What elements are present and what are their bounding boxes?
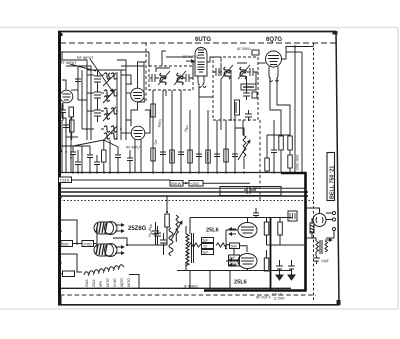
left border speck 1 [58, 60, 62, 62]
tube V1 RF amp envelope [60, 90, 73, 103]
link dot [185, 182, 187, 184]
corner blotch top right [333, 31, 338, 35]
wire B+ top rail [286, 51, 302, 53]
bypass capacitor C1 [60, 103, 66, 121]
coil L4 slug arrow [103, 126, 117, 141]
T4 leads [308, 238, 316, 256]
wire antenna vertical a [61, 52, 63, 60]
page scan edge right [397, 28, 399, 310]
node dot top right [294, 45, 296, 47]
boxed label value top right of T2 [252, 50, 259, 55]
svg-text:Ω 1500: Ω 1500 [274, 297, 285, 301]
heater string choke L5 [84, 265, 124, 276]
wire mains loop lower [60, 254, 82, 272]
filter cap C19 [160, 233, 167, 255]
wire antenna bus h1 [62, 60, 87, 70]
schematic outer border left [58, 31, 61, 306]
electrolytic C23 [288, 260, 295, 272]
svg-text:50KW: 50KW [171, 182, 182, 186]
comb wire w8 [216, 120, 218, 172]
wire stage mid vertical [225, 230, 227, 249]
speaker inner marks [316, 217, 323, 223]
wire osc grid link [121, 75, 131, 84]
T4 secondary [325, 241, 328, 252]
capacitor C8 shunt [127, 150, 133, 172]
tuning assembly frame [86, 70, 88, 140]
avc resistor R3 [252, 92, 257, 98]
node dot mix [130, 83, 132, 85]
T2 primary capacitor [213, 68, 222, 76]
T1 primary capacitor [149, 74, 159, 82]
wire to rectifiers [94, 243, 98, 245]
wire speaker circuit [306, 237, 316, 239]
svg-text:.1μF: .1μF [153, 139, 159, 146]
svg-text:5μF: 5μF [203, 239, 209, 243]
wire h link left mid [62, 145, 90, 147]
speaker top lead [306, 208, 320, 214]
resistor R6 boxed [170, 150, 175, 163]
comb wire w2 [162, 90, 164, 172]
antenna coil L1 [104, 73, 117, 79]
grid capacitor C25 [75, 74, 81, 87]
left border speck 7 [58, 262, 61, 264]
resistor R8 boxed [206, 150, 211, 163]
choke winding L6 [169, 228, 173, 256]
R8 label [207, 152, 209, 161]
corner blotch bottom left [58, 296, 62, 305]
wire top right to border [295, 46, 314, 48]
tube V5 base pins [269, 67, 279, 82]
page scan edge top [0, 27, 398, 29]
diode load label squiggle [243, 86, 254, 88]
wire between boxes [73, 243, 83, 245]
R14 tail [166, 227, 168, 245]
wire left drop g [109, 140, 111, 172]
T3 leads [185, 226, 187, 270]
rectifier V6 25Z6G body [94, 222, 117, 235]
bypass capacitor C16 [232, 154, 238, 157]
node dots tuning [86, 92, 122, 130]
tuning assembly right rail [120, 70, 122, 140]
T2 primary arrow [221, 65, 233, 79]
node dot IF2 [230, 119, 232, 121]
tube V2 converter envelope [131, 88, 145, 102]
wire to converter tube [126, 83, 131, 85]
wire filter link [158, 244, 168, 246]
wire osc feedback [145, 110, 150, 133]
svg-text:AF 50KΩ: AF 50KΩ [237, 47, 251, 51]
field coil hatched [310, 223, 314, 233]
V9 heater arrow [229, 259, 236, 261]
svg-text:1MEG: 1MEG [157, 118, 163, 128]
wire h mid right2 [273, 120, 275, 144]
R11 wire [280, 120, 282, 173]
plate resistor R12 [288, 136, 293, 150]
wire left drop f [81, 146, 83, 172]
T2 secondary capacitor [247, 68, 258, 76]
P1 top lead [235, 128, 244, 135]
ground symbol G2 [288, 272, 295, 280]
wire V4 pin link [199, 87, 213, 97]
terminal wire 2 [326, 219, 332, 221]
wire converter h link2 [126, 120, 131, 126]
output stage rail top [190, 217, 292, 219]
V6 inner ellipse [105, 222, 114, 234]
wire rect output down right [127, 244, 158, 246]
rf coil L2 [104, 90, 117, 101]
wire v from V5 pin2 down [277, 79, 290, 121]
tube V4 cathode bars [198, 62, 205, 72]
T2 secondary arrow [238, 65, 250, 79]
interstage transformer T3 primary [186, 234, 189, 255]
wire top horizontal grid feed [60, 51, 149, 53]
comb wire w4 [180, 90, 182, 172]
boxed label TS10 [59, 177, 72, 183]
screen resistor R5 [151, 148, 156, 161]
svg-text:+2kΩ: +2kΩ [190, 182, 199, 186]
IF transformer T1 shield (dashed) [149, 66, 193, 90]
chassis dashed line top [60, 42, 336, 44]
wire V3 leads left [121, 132, 131, 134]
cap C24 10uF [313, 256, 320, 264]
grid resistor zigzag h2 [216, 243, 230, 247]
top box label [290, 213, 295, 219]
V7 heater arrow 1 [115, 246, 124, 248]
wire mains loop upper [60, 220, 77, 243]
wire fuse to choke [60, 273, 63, 275]
V7 inner ellipse [105, 244, 114, 256]
line resistor boxed 50ohm [61, 241, 73, 247]
wire label link [183, 182, 189, 184]
coupling caps boxed stack [202, 238, 214, 243]
wire V5 plate right [282, 47, 296, 60]
bottom rail solid [60, 287, 291, 289]
wire assembly top rail [87, 69, 126, 71]
schematic outer border right [336, 32, 339, 306]
svg-text:6U7G: 6U7G [106, 278, 110, 287]
svg-text:RF INPUT: RF INPUT [60, 61, 77, 65]
svg-text:50K: 50K [231, 245, 238, 249]
cathode resistor R1 [69, 107, 74, 117]
cap across C21 [253, 208, 259, 218]
wire converter vertical d [143, 62, 145, 96]
wire antenna vertical c [81, 70, 83, 129]
coil L1 slug arrow [103, 73, 116, 86]
wire v from V5 pin down [270, 79, 281, 121]
wire IF2 drop a [220, 120, 222, 130]
comb wire w5 [189, 110, 191, 172]
trimmer capacitor C4 [94, 104, 101, 122]
tube V5 internals [268, 56, 279, 65]
left border speck 2 [59, 150, 62, 152]
coil L3 slug arrow [103, 107, 116, 121]
wire IF2 drop c [242, 120, 244, 135]
speaker circle [313, 214, 326, 227]
rectifier V7 25Z6G body [94, 243, 117, 256]
avc line resistor R10 [265, 158, 270, 171]
AF cap C20 [152, 222, 159, 245]
wire osc pin drop 2 [140, 139, 142, 172]
coil L2 slug arrow [103, 89, 116, 103]
capacitor C26 shunt [75, 150, 81, 173]
volume resistor R4 vertical boxed [235, 100, 240, 115]
wire right vertical feed 2 [301, 52, 303, 173]
V9 internals [241, 258, 254, 264]
svg-text:25L6: 25L6 [92, 279, 96, 287]
V9 arrow 2 [229, 264, 236, 266]
comb wire w6 [198, 87, 200, 172]
screen resistor column R15 [264, 222, 269, 235]
svg-text:.05μF: .05μF [183, 124, 190, 133]
capacitor C28 left column [63, 118, 69, 138]
comb wire w3 [171, 90, 173, 172]
wire converter vertical e [138, 96, 145, 102]
V8 arrow 2 [229, 233, 236, 235]
tube V4 base pins [198, 76, 206, 88]
wire right vertical feed 1 [294, 47, 296, 174]
comb wire w7 [207, 110, 209, 172]
T1 primary winding [160, 73, 166, 85]
bias resistor R14 [165, 214, 170, 227]
resistor R19 left column [70, 120, 75, 132]
node rect output [126, 244, 128, 246]
wire converter h link1 [121, 65, 144, 67]
output stage rail bottom [177, 270, 292, 272]
boxed label top 2A3 [288, 211, 297, 221]
P2 arrow [171, 221, 182, 240]
svg-text:50Ω: 50Ω [62, 243, 69, 247]
comb wire w10 [234, 115, 236, 172]
node dots left verticals [61, 145, 72, 159]
B minus heavy bus top [281, 172, 306, 174]
V6 heater arrow 2 [115, 230, 124, 232]
decoupling wire from heater rail [166, 196, 168, 212]
cap C17 [271, 144, 277, 173]
ground symbol G1 [276, 272, 283, 280]
capacitor C5 shunt [70, 146, 76, 172]
V6 heater arrow 1 [115, 224, 124, 226]
bypass capacitor C12 [160, 152, 166, 155]
boxed label 50KW [170, 181, 183, 187]
volume control potentiometer P1 [243, 135, 246, 169]
V7 heater arrow 2 [115, 252, 124, 254]
T2 secondary winding [240, 67, 246, 79]
wire vertical drop at 149 [148, 52, 150, 66]
wire 50K link [240, 246, 248, 252]
T4 core [320, 240, 322, 254]
corner blotch bottom right [337, 300, 341, 305]
comb wire w1 [152, 102, 154, 172]
node dot [166, 211, 168, 213]
wire antenna lead diagonal 2 [90, 59, 113, 92]
svg-text:25L6: 25L6 [234, 280, 247, 286]
svg-text:TS10: TS10 [60, 178, 70, 183]
tube V5 6Q7G envelope [266, 51, 282, 67]
terminal wire 3 [326, 231, 334, 238]
svg-text:6P5: 6P5 [99, 281, 103, 287]
bias boxed 5uF [229, 255, 240, 260]
svg-text:25L6: 25L6 [206, 228, 219, 234]
wire IF2 drop b [225, 120, 227, 130]
svg-text:RF INPUT: RF INPUT [77, 56, 94, 60]
left border speck 6 [58, 196, 61, 198]
bypass capacitor C13 [178, 152, 184, 155]
bus junction dots [72, 171, 275, 173]
left border speck 3 [58, 230, 62, 232]
wire line under bus [72, 179, 171, 181]
arrow to field [325, 239, 332, 241]
T1 secondary winding [177, 73, 183, 85]
B plus heavy vertical [270, 217, 272, 290]
resistor R2 [102, 150, 107, 162]
terminal circle 3 [332, 227, 335, 230]
coupling caps boxed stack 3 [202, 250, 214, 255]
schematic outer border top [58, 31, 336, 33]
wire top feed to 6U7G [162, 51, 166, 66]
resistor R7 boxed [188, 150, 193, 163]
T3 secondary [186, 252, 189, 266]
wire V2 V3 link [131, 102, 138, 126]
wire V2 plate to top [138, 62, 147, 88]
capacitor C27 shunt [94, 155, 100, 173]
line resistor boxed 170ohm [82, 241, 94, 247]
T1 inner leads [153, 68, 170, 102]
bypass capacitor C15 [214, 154, 220, 157]
plate resistor column R17 [278, 222, 283, 235]
wire left column 3 [70, 117, 72, 172]
svg-text:10μF: 10μF [321, 259, 329, 263]
output tube V8 envelope [238, 223, 257, 238]
bypass capacitor C14 [196, 154, 202, 157]
wire antenna bus h2 [66, 66, 91, 70]
B minus heavy bottom [204, 289, 307, 292]
wire antenna vertical b [77, 66, 79, 100]
P1 wiper arrow [238, 140, 250, 160]
wire V4 screen h [166, 56, 193, 58]
R13 tail [289, 168, 291, 173]
trimmer capacitor C3 [94, 86, 101, 104]
svg-text:6U7G: 6U7G [127, 278, 131, 287]
wire left link h5 [82, 128, 87, 130]
svg-text:.02: .02 [203, 245, 208, 249]
tube V2 internals [133, 93, 142, 99]
node dot top left [59, 51, 61, 53]
wire from labels right [203, 182, 250, 184]
wire left column 1 [61, 120, 63, 172]
avc wire lower [266, 171, 268, 173]
wire V4 grid lead [193, 62, 195, 78]
svg-text:BELL 750 ʹ21: BELL 750 ʹ21 [328, 166, 335, 199]
resistor R18 below T1 [151, 104, 156, 117]
output stage left drop [189, 218, 191, 235]
T3 core [192, 233, 194, 263]
fuse resistor box [63, 271, 75, 277]
terminal circle 2 [332, 218, 335, 221]
electrolytic C22 [276, 260, 283, 272]
heater line 1 [60, 191, 308, 193]
wire assembly cross rails [87, 75, 104, 129]
page scan edge bottom [0, 308, 398, 310]
resistor R13 [288, 155, 293, 168]
wire V8 grid left [226, 229, 238, 231]
R4 rotated label [235, 102, 237, 113]
left border speck 4 [59, 33, 63, 36]
tone pot P2 zigzag [176, 215, 179, 242]
wire arrow into V4 grid [186, 60, 194, 62]
wire V9 grid left [226, 260, 238, 262]
filter capacitor 8uF [244, 183, 256, 194]
trimmer capacitor C2 [94, 70, 101, 88]
wire rect cathode rail [96, 227, 98, 252]
svg-text:6Q7G: 6Q7G [120, 278, 124, 287]
wire converter h link3 [117, 60, 126, 70]
avc wire [266, 135, 268, 158]
plate resistor R11 [279, 136, 284, 150]
svg-text:5μF: 5μF [230, 256, 236, 260]
IF transformer T2 shield (dashed) [213, 57, 258, 120]
svg-text:OSC 0841: OSC 0841 [296, 154, 300, 170]
tube V4 top cap [197, 50, 205, 58]
B minus heavy vertical [304, 172, 307, 291]
T1 secondary tuning arrow [174, 71, 186, 85]
svg-text:5μF: 5μF [203, 251, 209, 255]
wire antenna lead-in diagonal [70, 64, 96, 71]
T1 secondary capacitor [183, 74, 193, 82]
wire osc pin drop 1 [134, 139, 136, 172]
svg-text:25Z6G: 25Z6G [128, 226, 147, 232]
V8 internals [241, 227, 254, 233]
field coil leads [311, 218, 313, 238]
chassis dashed line right vertical [313, 43, 315, 300]
svg-text:25L6: 25L6 [85, 279, 89, 287]
wire left link h6 [62, 117, 66, 119]
diode load resistor boxed [241, 84, 256, 90]
resistor R9 boxed [224, 149, 229, 162]
svg-text:5Y4G: 5Y4G [113, 278, 117, 287]
heater line 2 [60, 195, 308, 197]
grid resistor zigzag h1 [189, 243, 203, 247]
output transformer T4 primary [316, 241, 319, 252]
svg-text:RF INPUT: RF INPUT [126, 146, 142, 150]
output tube V9 envelope [238, 254, 257, 269]
schematic outer border bottom [58, 304, 340, 306]
tube V4 6U7G envelope [195, 48, 207, 77]
tube V1 internal grid [63, 94, 71, 100]
osc coil L4 tapped [104, 126, 117, 139]
R15 leads [266, 218, 268, 246]
osc coil L3 [104, 108, 117, 119]
filter cap C18 40uF [154, 226, 161, 245]
T2 internal leads [221, 63, 256, 120]
hum filter box [220, 187, 281, 196]
node dots mid caps [77, 171, 111, 173]
terminal wire 1 [326, 212, 332, 214]
bias boxed 750 [229, 261, 240, 266]
V6 plate hatch [96, 222, 107, 234]
wire left link h3 [71, 89, 78, 91]
wire V1 cathode leads [62, 103, 66, 118]
screen resistor column R16 [264, 258, 269, 271]
chassis dashed line bottom [60, 294, 316, 296]
wire h link left mid2 [73, 140, 118, 147]
wire plate to output transformer [280, 244, 306, 246]
capacitor C6 shunt [87, 146, 93, 172]
avc capacitor C9 [243, 90, 250, 100]
wire screen feed [267, 244, 281, 246]
terminal circle 1 [332, 211, 335, 214]
wire V4 plate to T2 [207, 57, 221, 62]
wire h mid right [267, 134, 290, 136]
